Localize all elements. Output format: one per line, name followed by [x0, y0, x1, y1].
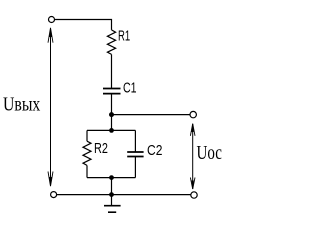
- wire R1 to C1: [111, 54, 113, 88]
- terminal top-left: [49, 17, 55, 23]
- dimension line Uвых: [48, 28, 53, 186]
- terminal top-right: [190, 111, 196, 117]
- svg-text:R1: R1: [118, 28, 130, 45]
- svg-text:Uос: Uос: [197, 142, 222, 164]
- node C junction dot (box bottom): [109, 175, 114, 180]
- capacitor C1: [103, 89, 121, 94]
- wire box left lower: [86, 165, 88, 177]
- wire C1 to node A: [111, 94, 113, 131]
- resistor R1: [107, 30, 115, 55]
- wire box left upper: [86, 130, 88, 141]
- capacitor C2: [127, 152, 143, 157]
- wire bottom rail: [57, 194, 191, 196]
- svg-text:R2: R2: [94, 140, 108, 157]
- node D junction dot (rail): [109, 192, 114, 197]
- dimension line Uoc: [190, 124, 195, 189]
- resistor R2: [83, 141, 91, 165]
- wire box right upper: [134, 130, 136, 152]
- wire box bottom: [87, 177, 135, 179]
- terminal bottom-right: [191, 192, 197, 198]
- wire box top: [87, 129, 135, 131]
- svg-text:C2: C2: [147, 142, 162, 159]
- wire box right lower: [134, 157, 136, 178]
- node B junction dot (box top): [109, 128, 114, 133]
- svg-text:Uвых: Uвых: [3, 94, 40, 116]
- wire box bottom to rail: [111, 178, 113, 195]
- ground: [104, 195, 121, 213]
- node A junction dot: [109, 112, 114, 117]
- wire top (terminal to R1): [55, 20, 112, 30]
- svg-text:C1: C1: [123, 79, 137, 96]
- terminal bottom-left: [51, 192, 57, 198]
- wire node A to right terminal: [112, 114, 191, 116]
